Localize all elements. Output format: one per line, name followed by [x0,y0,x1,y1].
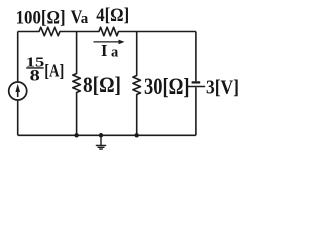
svg-text:a: a [111,44,119,60]
svg-text:4[Ω]: 4[Ω] [96,5,129,26]
svg-text:I: I [101,41,107,60]
svg-text:[A]: [A] [44,60,64,80]
svg-text:100[Ω]: 100[Ω] [16,7,66,28]
svg-text:8[Ω]: 8[Ω] [83,72,121,97]
svg-text:30[Ω]: 30[Ω] [144,74,190,99]
svg-text:a: a [81,11,89,27]
svg-text:8: 8 [30,66,40,83]
svg-text:3[V]: 3[V] [206,77,239,99]
